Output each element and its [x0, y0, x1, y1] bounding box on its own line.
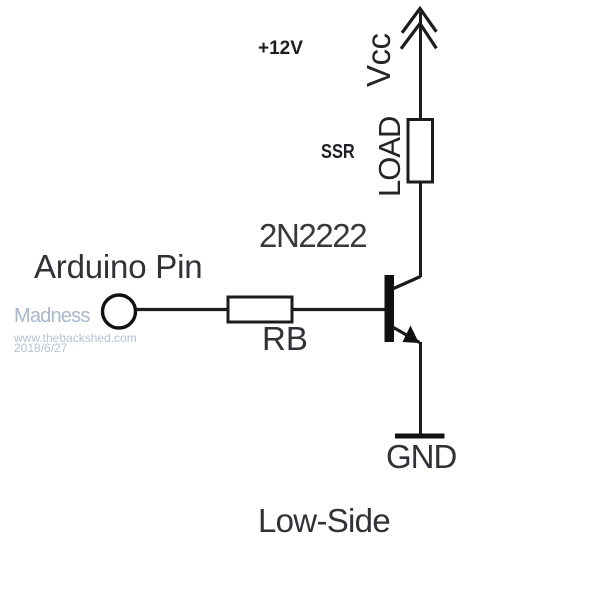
base bar [385, 275, 395, 342]
transistor Q1 2N2222 [385, 275, 421, 343]
resistor RB [228, 297, 292, 322]
label Arduino Pin [34, 248, 202, 286]
label LOAD (rotated) [374, 117, 405, 197]
label +12V [258, 38, 303, 60]
collector lead [394, 277, 421, 289]
wire Vcc to LOAD [419, 12, 422, 120]
emitter arrowhead [403, 326, 420, 344]
watermark Madness [14, 305, 90, 328]
wire LOAD to collector [419, 182, 422, 277]
watermark url [14, 331, 137, 345]
label GND [386, 438, 456, 476]
resistor LOAD [408, 120, 433, 183]
label Low-Side [258, 502, 390, 540]
wire base from RB [135, 308, 385, 311]
label SSR [321, 141, 355, 164]
power symbol Vcc arrow [402, 9, 436, 48]
emitter lead [394, 328, 420, 343]
watermark date [14, 341, 67, 355]
terminal Arduino pin circle [103, 295, 136, 328]
wire emitter to GND [419, 342, 422, 434]
label Vcc (rotated) [362, 33, 395, 87]
label 2N2222 [259, 217, 366, 255]
ground bar GND [395, 434, 445, 439]
label RB [262, 320, 308, 358]
